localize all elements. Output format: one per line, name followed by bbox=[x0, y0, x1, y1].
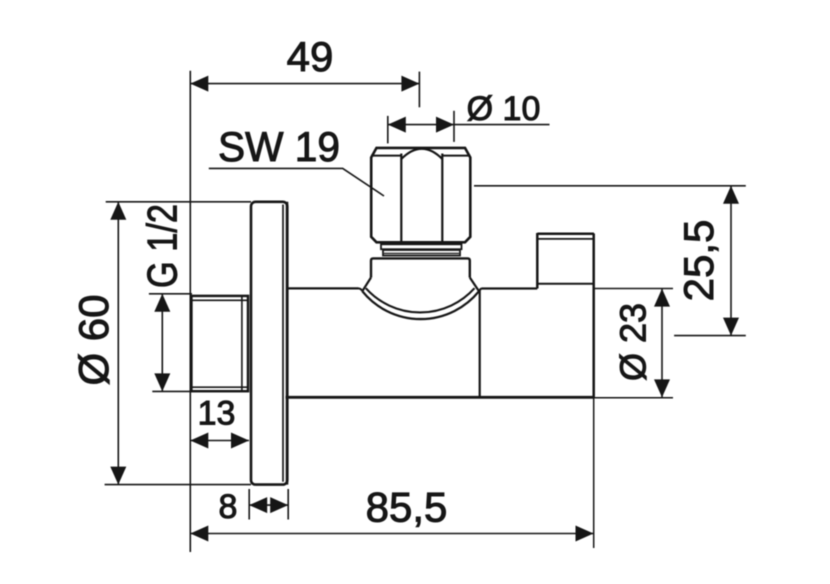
wall plate (escutcheon) bbox=[251, 202, 287, 485]
dimension 13 bbox=[190, 440, 249, 442]
svg-text:SW 19: SW 19 bbox=[218, 123, 340, 170]
label SW 19 with leader bbox=[209, 168, 384, 196]
svg-text:25,5: 25,5 bbox=[675, 220, 722, 302]
dimension Ø 60 bbox=[105, 202, 251, 485]
svg-text:85,5: 85,5 bbox=[366, 484, 448, 531]
svg-text:Ø 10: Ø 10 bbox=[467, 90, 541, 128]
svg-text:8: 8 bbox=[219, 488, 238, 526]
svg-text:G 1/2: G 1/2 bbox=[139, 204, 186, 288]
valve body bbox=[286, 202, 674, 548]
dimension 49 bbox=[190, 71, 419, 552]
svg-text:13: 13 bbox=[198, 395, 236, 433]
dimension 25,5 bbox=[474, 186, 746, 336]
dimension Ø 23 bbox=[661, 289, 663, 398]
bell / dome arcs bbox=[362, 288, 481, 319]
dimension G 1/2 bbox=[149, 294, 192, 392]
dimension 85,5 bbox=[190, 533, 593, 535]
dimension 8 bbox=[249, 489, 288, 520]
svg-text:Ø 23: Ø 23 bbox=[613, 303, 654, 381]
hex nut SW19 bbox=[371, 148, 470, 242]
side outlet box bbox=[537, 233, 594, 289]
dimension Ø 10 bbox=[388, 111, 550, 144]
svg-text:49: 49 bbox=[287, 33, 334, 80]
thread rings under nut bbox=[381, 244, 462, 255]
svg-text:Ø 60: Ø 60 bbox=[70, 294, 117, 385]
compression olive cap bbox=[362, 258, 479, 291]
wall-side pipe G 1/2 thread bbox=[191, 296, 248, 391]
